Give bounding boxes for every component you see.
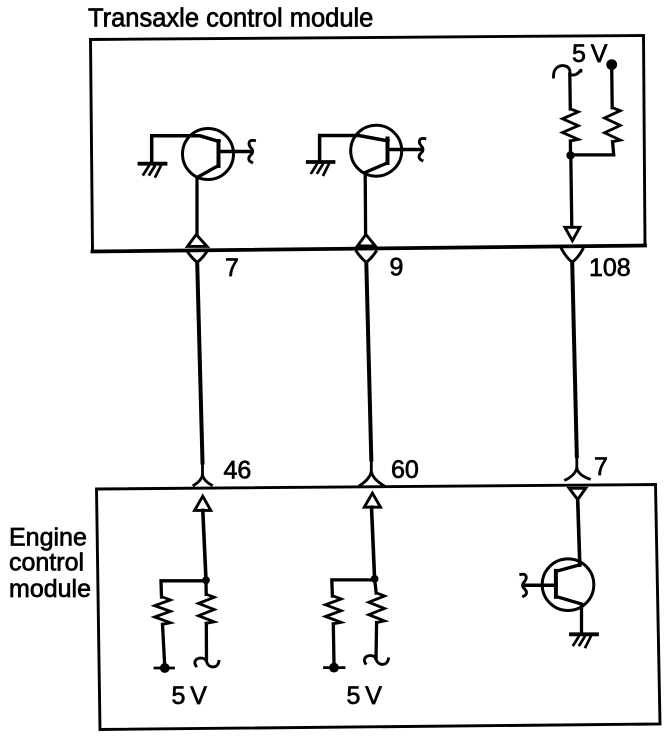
transistor Q2 <box>320 125 421 234</box>
svg-text:108: 108 <box>589 254 631 282</box>
resistor R3 <box>155 597 171 624</box>
pin 9 connector (transaxle) <box>357 235 375 247</box>
resistor R4 <box>204 581 207 595</box>
pin 7 connector (ecm) <box>566 457 590 480</box>
svg-text:7: 7 <box>225 254 239 282</box>
break squiggle at top of R1 <box>553 66 581 77</box>
svg-text:9: 9 <box>390 254 404 282</box>
wire R3 to terminal <box>163 624 165 664</box>
resistor R5 <box>325 596 341 624</box>
5V supply dot <box>606 59 617 70</box>
break squiggle at Q1 collector <box>249 140 255 162</box>
wire R2 to 5V dot <box>610 66 614 108</box>
transistor Q3 <box>526 559 594 633</box>
wire R4 to squiggle <box>205 623 208 659</box>
label Engine control module <box>9 524 91 604</box>
wire pin7(ecm) to Q3 collector <box>578 500 580 566</box>
svg-text:60: 60 <box>391 456 419 484</box>
break squiggle below R6 <box>364 656 388 665</box>
wire pin108 to pin7(ecm) <box>572 262 577 456</box>
svg-text:module: module <box>9 575 91 603</box>
wire from squiggle to R1 <box>568 74 572 109</box>
ground for Q2 base <box>308 162 334 175</box>
svg-text:V: V <box>190 682 207 710</box>
break squiggle below R4 <box>195 658 219 667</box>
wire pin46 to junction <box>203 510 206 580</box>
svg-text:Transaxle control module: Transaxle control module <box>88 5 373 33</box>
svg-text:control: control <box>9 549 84 577</box>
ground for Q1 base <box>140 164 166 177</box>
pin 7 connector (transaxle) <box>188 235 208 247</box>
wire R6 to squiggle <box>374 623 378 659</box>
svg-text:V: V <box>591 40 608 68</box>
resistor R2 <box>605 108 621 142</box>
transaxle control module box <box>91 36 646 252</box>
junction dot <box>566 151 574 159</box>
svg-text:5: 5 <box>172 682 186 710</box>
wire pin7 to pin46 <box>197 263 202 463</box>
5V terminal dot (R5) <box>325 666 345 669</box>
svg-text:5: 5 <box>572 40 586 68</box>
wire junction left to R3 <box>161 581 206 597</box>
wire junction to R2 bottom <box>571 142 614 155</box>
svg-text:Engine: Engine <box>9 524 87 552</box>
junction dot (pin60 branch) <box>371 575 379 583</box>
wire pin60 to junction <box>372 507 375 579</box>
svg-text:5: 5 <box>347 682 361 710</box>
pin 46 connector (ecm) <box>194 463 212 485</box>
wire R1 to junction <box>569 141 572 155</box>
break squiggle at Q2 collector <box>419 138 425 160</box>
pin 108 connector (transaxle) <box>562 249 583 262</box>
wire junction down to pin 108 <box>571 155 572 227</box>
wire junction left to R5 <box>332 580 375 596</box>
engine control module box <box>97 485 661 730</box>
svg-text:7: 7 <box>594 453 608 481</box>
wire pin9 to pin60 <box>366 263 371 460</box>
resistor R6 <box>375 579 377 593</box>
5V terminal dot (R3) <box>155 667 174 670</box>
svg-text:V: V <box>365 682 382 710</box>
wire R5 to terminal <box>332 624 336 664</box>
resistor R1 <box>563 109 579 141</box>
pin 60 connector (ecm) <box>360 460 384 485</box>
transistor Q1 <box>152 129 250 235</box>
ground for Q3 emitter <box>571 634 597 647</box>
pin 108 output triangle <box>565 227 580 240</box>
break squiggle at Q3 base <box>521 574 527 596</box>
svg-text:46: 46 <box>224 457 252 485</box>
junction dot (pin46 branch) <box>202 576 210 584</box>
